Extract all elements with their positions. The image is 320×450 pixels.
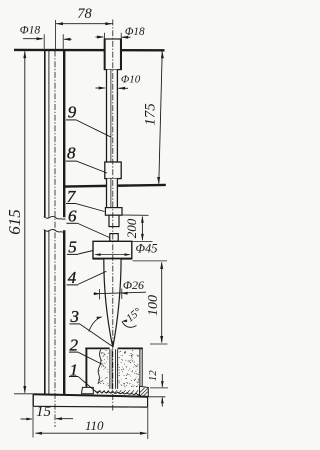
svg-text:175: 175 [143, 103, 159, 126]
foot under cup left (support) [82, 387, 94, 393]
column break squiggle lower [44, 229, 66, 232]
rod (Phi10 stem), upper section [106, 70, 117, 163]
column break squiggle upper [44, 216, 66, 219]
svg-text:Φ10: Φ10 [121, 73, 141, 85]
disc block 5 [93, 241, 132, 258]
flange right of cup (hatched) [140, 386, 149, 396]
Phi45 arrow inside block5 [96, 254, 130, 256]
svg-text:3: 3 [70, 307, 80, 326]
angle arc left [89, 317, 102, 332]
rod middle section (through arm) [106, 179, 117, 208]
centerline of column (axis) [54, 51, 56, 428]
dimension 615 line [24, 51, 26, 393]
weight block 8 [105, 162, 121, 179]
collar 7 [105, 208, 122, 216]
svg-text:78: 78 [77, 6, 92, 22]
sample bottom scallops [95, 391, 141, 395]
base plate 1 [33, 394, 148, 407]
middle arm (bracket) [63, 185, 165, 187]
dimension 15 (base) [32, 407, 34, 438]
svg-text:5: 5 [68, 237, 77, 256]
svg-text:6: 6 [68, 207, 77, 226]
svg-text:15: 15 [36, 404, 52, 420]
torn-section wavy boundary [98, 350, 101, 385]
svg-text:Φ18: Φ18 [20, 24, 41, 37]
dimension 110 [147, 408, 149, 440]
svg-text:9: 9 [68, 103, 77, 122]
dimension 100 [133, 260, 168, 262]
cone 4 [104, 259, 121, 348]
svg-text:615: 615 [5, 209, 24, 235]
cup right wall (double) [139, 348, 141, 386]
sample stipple [124, 352, 127, 355]
svg-text:8: 8 [67, 144, 76, 163]
cup left wall [85, 348, 87, 387]
column lower part [44, 230, 46, 394]
stub below collar (part 6) [109, 215, 119, 226]
dimension Phi18 tube arrows [96, 36, 104, 38]
top bar (arm of stand) [14, 49, 165, 52]
guide tube in sample [109, 349, 118, 389]
cup (mold) 2 : surface line [85, 347, 109, 349]
dimension 12 [150, 387, 168, 389]
dimension 200 [121, 214, 149, 216]
svg-text:Φ45: Φ45 [135, 241, 157, 255]
dimension Phi18 left arrows [23, 38, 43, 40]
rod 9 (upper guide tube) [104, 39, 121, 70]
stub above block 5 [110, 234, 118, 242]
dimension 615 extension line (bottom) [14, 393, 33, 395]
svg-text:12: 12 [147, 370, 159, 382]
svg-text:4: 4 [68, 268, 77, 287]
dimension 175 line [159, 52, 162, 184]
angle arc right [122, 322, 136, 327]
centerline of rod/cone (axis) [112, 20, 114, 411]
crush hatch under sample [98, 390, 101, 393]
svg-text:200: 200 [124, 218, 139, 238]
svg-text:100: 100 [146, 295, 161, 316]
svg-text:110: 110 [85, 418, 104, 433]
column (stand tube) upper part [44, 51, 46, 218]
svg-text:Φ26: Φ26 [123, 278, 144, 292]
dimension 78 [55, 20, 57, 49]
